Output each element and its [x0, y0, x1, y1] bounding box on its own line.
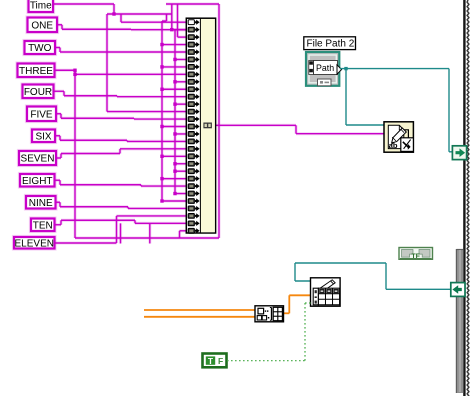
svg-text:EIGHT: EIGHT: [22, 176, 53, 187]
svg-text:TF: TF: [411, 254, 420, 261]
svg-text:T: T: [208, 356, 214, 366]
svg-text:THREE: THREE: [19, 66, 53, 77]
svg-text:Path: Path: [316, 63, 334, 73]
svg-text:ab: ab: [389, 141, 398, 150]
svg-text:File Path 2: File Path 2: [307, 39, 355, 50]
svg-text:FOUR: FOUR: [24, 87, 52, 98]
svg-text:FIVE: FIVE: [30, 109, 53, 120]
svg-text:ELEVEN: ELEVEN: [15, 238, 54, 249]
svg-text:SEVEN: SEVEN: [21, 154, 55, 165]
svg-text:ONE: ONE: [31, 20, 53, 31]
svg-text:NINE: NINE: [29, 198, 53, 209]
svg-text:TEN: TEN: [33, 220, 53, 231]
svg-text:TWO: TWO: [28, 43, 52, 54]
svg-text:SIX: SIX: [35, 131, 51, 142]
svg-text:F: F: [218, 356, 223, 366]
svg-text:Time: Time: [30, 0, 52, 11]
